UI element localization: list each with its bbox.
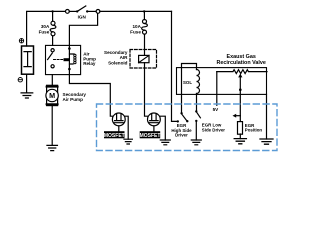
ground (Q2) [160,140,170,145]
svg-text:IGN: IGN [78,15,87,20]
node (10A fuse tap junction) [143,10,145,12]
svg-text:Fuse: Fuse [39,29,50,34]
EGR valve enclosure [177,68,267,95]
svg-text:Recirculation Valve: Recirculation Valve [216,60,265,66]
wire (pot return via enclosure to ground) [266,94,268,139]
driver logic block U1 [104,131,125,139]
wire (solenoid to driver Q2) [145,63,148,116]
battery negative terminal symbol [18,78,22,82]
fuse F1 30A [50,21,56,36]
svg-text:Secondary: Secondary [104,50,128,55]
label Secondary Air Pump [63,92,87,102]
label EGR High Side Driver [171,123,192,137]
label 30A Fuse [39,24,50,34]
wire (30A fuse to relay) [52,36,54,46]
wire (motor to ground) [51,106,53,146]
EGR low side driver switch [195,110,200,122]
ignition switch IGN [66,6,100,13]
wire (relay coil output to driver Q1) [69,75,112,117]
svg-text:SOL: SOL [183,80,192,85]
wire (high side driver up and over to EGR coil) [182,64,197,113]
wire (rail to 10A fuse) [143,11,145,19]
svg-text:M: M [49,91,55,100]
label EGR Position [245,123,263,133]
svg-text:10A: 10A [132,24,141,29]
wire (EGR coil to low side driver) [196,94,198,111]
wire (relay contact to motor) [51,75,53,86]
fuse F2 10A [142,20,148,35]
wire (10A fuse to secondary AIR solenoid) [144,34,146,55]
wire (Q2 to ground) [160,116,165,140]
svg-text:5V: 5V [213,107,220,112]
svg-text:Position: Position [245,128,263,133]
wire (low side driver to ground) [195,122,197,140]
svg-text:Air Pump: Air Pump [63,97,84,102]
svg-text:Fuse: Fuse [130,30,141,35]
potentiometer wiper arrow [238,74,242,122]
svg-text:Driver: Driver [175,133,188,138]
svg-text:Solenoid: Solenoid [108,61,128,66]
motor M1 Secondary Air Pump [46,85,58,105]
wire (Q1 to ground) [125,116,128,139]
label Exaust Gas Recirculation Valve [216,54,265,66]
svg-text:AIR: AIR [120,55,129,60]
ground (low side driver) [191,140,201,145]
EGR high side driver switch [180,112,188,122]
wire (battery positive to top rail to IGN switch) [27,11,66,46]
label 10A Fuse [130,24,141,34]
svg-text:MOSFET: MOSFET [140,133,161,139]
wire (Q1 gate lead) [118,126,120,131]
battery B1 [22,46,34,74]
wire (rail to 30A fuse) [52,11,54,21]
EGR position sense arrow [233,114,241,118]
driver logic block U2 [140,131,161,139]
ground (battery) [21,93,33,98]
node (30A fuse tap junction) [51,10,53,12]
ground (Q1) [124,139,132,144]
EGR solenoid coil winding [197,70,200,94]
svg-text:Side Driver: Side Driver [202,127,225,132]
solenoid valve symbol [139,55,149,62]
wire (5V reference) [216,72,218,106]
ground (EGR position) [234,139,246,144]
relay coil [64,45,77,74]
resistor (EGR position input) [238,122,243,135]
svg-text:30A: 30A [41,24,50,29]
node (high side contact) [177,120,179,122]
driver transistor Q1 (air pump relay driver) [112,113,125,126]
ground (EGR sensor return) [260,139,273,144]
battery positive terminal symbol [19,39,23,43]
PCM boundary (dashed) [97,104,278,151]
relay plunger link (dashed) [54,59,64,61]
svg-text:Relay: Relay [83,61,96,66]
node (wiper junction dot) [239,88,242,91]
label Air Pump Relay [83,52,96,67]
relay switch contact (movable arm) [48,49,55,68]
svg-text:MOSFET: MOSFET [104,133,125,139]
wire (Q2 gate lead) [153,126,155,131]
wire (battery negative to ground) [26,74,28,93]
EGR position potentiometer track [217,70,267,74]
secondary AIR solenoid L1 (dashed enclosure) [130,50,157,69]
wire (top rail, IGN to EGR drop) [100,10,172,12]
relay K1 box [46,45,81,74]
wire (top rail down to EGR high side driver contact) [172,11,177,121]
label EGR Low Side Driver [202,123,225,133]
label Secondary AIR Solenoid [104,50,128,66]
wire (IGN to relay coil) [69,13,97,45]
ground (air pump motor) [47,145,57,150]
driver transistor Q2 (secondary AIR solenoid driver) [148,113,161,126]
wire (resistor to ground) [239,134,241,139]
